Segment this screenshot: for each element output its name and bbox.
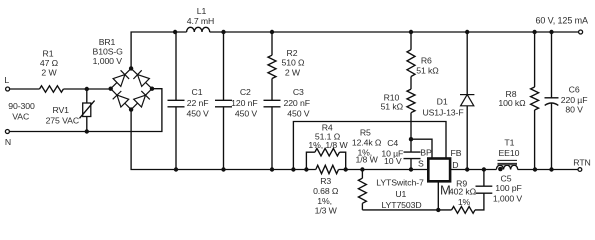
node top rail junction 7 [549,30,553,34]
capacitor C3 [264,100,281,107]
wire bottom rail (bridge negative to U1 source) [131,110,428,170]
svg-text:90-300: 90-300 [8,101,35,111]
svg-text:100 kΩ: 100 kΩ [498,98,526,108]
terminal RTN [578,168,582,172]
resistor R1 [40,86,64,92]
svg-text:LYTSwitch-7: LYTSwitch-7 [376,178,424,188]
svg-text:C2: C2 [240,87,251,97]
svg-text:51 kΩ: 51 kΩ [416,66,439,76]
node top rail junction 2 [221,30,225,34]
resistor R5 [358,178,366,203]
svg-text:275 VAC: 275 VAC [46,115,79,125]
capacitor C1 [168,100,185,107]
node M/R9 [436,208,440,212]
svg-text:2 W: 2 W [285,68,301,78]
svg-text:120 nF: 120 nF [231,98,257,108]
svg-text:C3: C3 [293,87,304,97]
transformer T1 phase dot [498,167,503,172]
svg-text:450 V: 450 V [287,108,310,118]
node bottom rail junction 2 [221,167,225,171]
terminal L [6,87,10,91]
wire bottom snubber line (R5 to R9 to C5) [362,193,484,210]
resistor R3 [316,165,339,173]
svg-text:L1: L1 [197,6,207,16]
svg-text:R2: R2 [287,48,298,58]
wire M pin [437,182,439,210]
svg-text:R3: R3 [320,176,331,186]
wire L line (L terminal to bridge left) [10,88,111,90]
wire R8 branch [534,32,536,170]
svg-text:B10S-G: B10S-G [93,46,124,56]
op-amp U1 LYT7503D body [428,159,450,182]
svg-text:D: D [452,160,458,170]
capacitor C6 (polarized) [545,97,559,99]
svg-text:RTN: RTN [573,157,590,167]
node bridge right vertex [150,87,154,91]
wire top rail (rectified bus to 60V output) [131,32,578,68]
svg-text:60 V, 125 mA: 60 V, 125 mA [535,16,588,26]
svg-text:S: S [418,159,424,169]
varistor RV1 [86,89,88,132]
node bottom rail junction 8 [409,167,413,171]
svg-text:BP: BP [420,148,432,158]
svg-text:1%: 1% [458,197,471,207]
node bridge left vertex [109,87,113,91]
node top rail junction 6 [532,30,536,34]
wire N line (N terminal to bridge right) [9,89,162,132]
svg-text:C5: C5 [501,174,512,184]
wire FB net [293,122,446,170]
svg-text:C6: C6 [569,84,580,94]
node bottom rail junction 7 [360,167,364,171]
node RTN/R8 [533,167,537,171]
wire R2/C3 branch [271,32,273,170]
diode D1 [461,95,474,106]
node top rail junction 1 [173,30,177,34]
svg-text:C4: C4 [387,138,398,148]
wire C2 branch [223,32,225,170]
svg-text:U1: U1 [395,189,406,199]
svg-text:1,000 V: 1,000 V [93,56,123,66]
svg-text:1/3 W: 1/3 W [315,206,338,216]
svg-text:10 V: 10 V [384,156,402,166]
svg-text:N: N [5,137,11,147]
node bottom rail junction 3 [270,167,274,171]
bridge rectifier BR1 [111,68,131,88]
node RV1 bottom [85,129,89,133]
wire R5 branch [361,170,363,210]
node top rail junction 4 [409,30,413,34]
svg-text:R6: R6 [421,55,432,65]
svg-text:51 kΩ: 51 kΩ [381,102,404,112]
transformer T1 core [498,160,518,164]
terminal 60V output [579,30,583,34]
wire BP net [411,139,432,158]
svg-text:22 nF: 22 nF [187,98,209,108]
node BP junction [409,137,413,141]
node top rail junction 5 [465,30,469,34]
node bridge top vertex [129,66,133,70]
resistor R8 [531,87,539,110]
node top rail junction 3 [270,30,274,34]
node RV1 top [85,87,89,91]
node drain/C5 [482,167,486,171]
svg-text:1/8 W: 1/8 W [355,155,378,165]
svg-text:1%,: 1%, [317,196,332,206]
node drain/D1 [465,167,469,171]
svg-text:RV1: RV1 [52,105,69,115]
wire D1 branch [466,32,468,170]
resistor R6 [407,50,415,77]
svg-text:L: L [4,75,9,85]
wire R4 bypass loop [306,152,345,169]
svg-text:12.4k Ω: 12.4k Ω [352,137,382,147]
svg-text:0.68 Ω: 0.68 Ω [313,186,339,196]
svg-text:R1: R1 [43,48,54,58]
node bottom rail junction 6 [344,167,348,171]
capacitor C4 [404,152,421,159]
resistor R10 [407,89,415,113]
resistor R4 [315,148,340,156]
wire R6/R10/C4 branch [410,32,412,170]
svg-text:80 V: 80 V [565,105,583,115]
svg-text:C1: C1 [192,87,203,97]
node RTN/C6 [549,167,553,171]
node bottom rail junction 4 [291,167,295,171]
svg-text:2 W: 2 W [41,68,57,78]
svg-text:510 Ω: 510 Ω [282,58,306,68]
svg-text:47 Ω: 47 Ω [40,58,59,68]
svg-text:1%, 1/8 W: 1%, 1/8 W [308,140,348,150]
svg-text:1,000 V: 1,000 V [493,194,523,204]
capacitor C5 [476,186,493,193]
svg-text:100 pF: 100 pF [495,183,521,193]
svg-text:402 kΩ: 402 kΩ [449,187,477,197]
node bottom rail junction 5 [304,167,308,171]
svg-text:R5: R5 [360,128,371,138]
resistor R2 [268,55,276,78]
svg-text:220 nF: 220 nF [283,98,309,108]
wire drain line (U1 D pin to RTN) [451,169,579,171]
node bridge bottom vertex [129,107,133,111]
node bottom rail junction 1 [174,167,178,171]
resistor R9 [452,207,475,214]
svg-text:4.7 mH: 4.7 mH [187,16,214,26]
svg-text:D1: D1 [437,97,448,107]
wire C6 branch [551,32,553,170]
svg-text:450 V: 450 V [186,108,209,118]
svg-text:220 µF: 220 µF [561,95,588,105]
svg-text:450 V: 450 V [235,108,258,118]
svg-text:LYT7503D: LYT7503D [381,200,421,210]
svg-text:VAC: VAC [12,111,29,121]
terminal N [5,130,9,134]
wire C5 top [483,170,485,187]
inductor L1 [187,27,210,32]
svg-text:EE10: EE10 [498,148,519,158]
wire C1 branch [175,32,177,170]
svg-text:FB: FB [451,148,462,158]
svg-text:T1: T1 [504,137,514,147]
svg-text:US1J-13-F: US1J-13-F [422,108,463,118]
capacitor C2 [215,100,232,107]
transformer T1 winding [496,165,517,169]
